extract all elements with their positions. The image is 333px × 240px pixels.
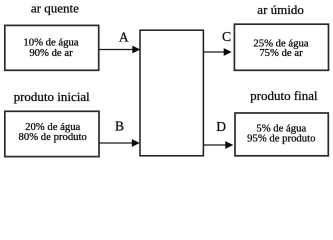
svg-text:75% de ar: 75% de ar: [259, 47, 303, 59]
svg-text:ar quente: ar quente: [31, 1, 79, 16]
box: produto final (5% de agua / 95% de produto): [235, 113, 328, 156]
svg-text:90% de ar: 90% de ar: [29, 47, 73, 59]
central process box: [140, 30, 203, 156]
box: produto inicial (20% de agua / 80% de produto): [5, 111, 99, 156]
arrow C (central box to box3): [203, 51, 225, 53]
svg-text:95% de produto: 95% de produto: [247, 132, 315, 144]
box: ar quente (10% de agua / 90% de ar): [5, 25, 99, 70]
svg-text:ar úmido: ar úmido: [257, 2, 304, 17]
box: ar umido (25% de agua / 75% de ar): [234, 24, 328, 70]
svg-text:D: D: [216, 119, 226, 134]
arrow D (central box to box4): [203, 144, 226, 146]
svg-text:A: A: [119, 29, 129, 44]
svg-text:produto inicial: produto inicial: [14, 89, 91, 104]
svg-text:produto final: produto final: [250, 88, 318, 103]
svg-text:B: B: [115, 119, 124, 134]
svg-text:80% de produto: 80% de produto: [19, 131, 87, 143]
svg-text:C: C: [222, 29, 231, 44]
arrow A (box1 to central box): [99, 49, 134, 51]
arrow B (box2 to central box): [99, 142, 133, 144]
